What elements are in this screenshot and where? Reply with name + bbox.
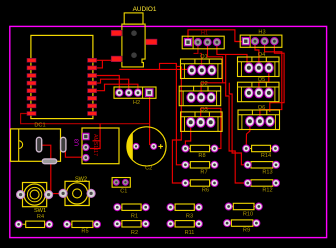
capacitor C1 xyxy=(112,178,130,195)
wire H1 pin4 to H3 pin4 xyxy=(188,30,242,42)
wire H3 pin3 right bus2 xyxy=(270,45,284,112)
svg-text:Q5: Q5 xyxy=(258,77,265,83)
resistor R12 xyxy=(244,180,279,194)
wire Q5 base to Q4 link xyxy=(259,74,269,89)
resistor R9 xyxy=(224,220,260,234)
transistor Q4 xyxy=(238,52,280,77)
resistor R8 xyxy=(182,145,218,159)
svg-text:R11: R11 xyxy=(185,230,195,236)
wire IC right pin5 to H2 pin3 xyxy=(96,84,138,91)
DC jack DC1 xyxy=(11,122,66,163)
wire IC right pin1 to AUDIO1 pad3 xyxy=(96,59,112,61)
resistor R7 xyxy=(182,161,218,175)
svg-text:Q1: Q1 xyxy=(200,54,207,60)
transistor Q3 xyxy=(181,107,223,131)
wire DC1 pad1 to SW1/SW2 xyxy=(41,145,65,193)
svg-text:H3: H3 xyxy=(258,30,265,36)
svg-text:R8: R8 xyxy=(198,153,205,159)
header H2 xyxy=(114,87,156,106)
capacitor C2 xyxy=(127,127,166,172)
svg-text:R2: R2 xyxy=(131,230,138,236)
wire H2 area to Q1 left pad xyxy=(119,68,192,70)
svg-text:Q4: Q4 xyxy=(258,52,265,58)
svg-text:R6: R6 xyxy=(202,188,209,194)
resistor R13 xyxy=(244,161,279,175)
wire H3 pin2 right bus to Q6 base xyxy=(260,45,282,116)
svg-text:AUDIO1: AUDIO1 xyxy=(133,6,157,13)
wire Q3 base up and right xyxy=(201,108,221,148)
svg-text:R9: R9 xyxy=(243,228,250,234)
wire Q3 emitter to R8 xyxy=(185,126,190,149)
resistor R5 xyxy=(64,221,101,235)
switch SW1 xyxy=(17,183,53,215)
wire DC1 pad2 to U3 pad3 xyxy=(63,152,84,158)
regulator U3 xyxy=(75,128,120,164)
wire H3 pin1 to Q4 base xyxy=(255,45,259,63)
resistor R3 xyxy=(167,204,202,220)
wire IC pin8-left to U3/C2/H2 long net xyxy=(21,114,150,124)
resistor R10 xyxy=(225,203,262,217)
svg-text:R5: R5 xyxy=(81,228,88,234)
transistor Q5 xyxy=(238,77,280,102)
svg-text:AMS1117: AMS1117 xyxy=(92,134,98,156)
wire IC right pin4 to H2 pin2 xyxy=(96,79,129,90)
wire IC right pin3 to H2 pin1 xyxy=(96,76,120,91)
wire H3 pin4 stub xyxy=(236,41,242,43)
svg-text:R12: R12 xyxy=(262,188,272,194)
svg-text:R4: R4 xyxy=(37,214,44,220)
resistor R14 xyxy=(243,145,279,159)
IC U2 with SMD pads xyxy=(27,35,97,118)
wire H2 pin4 to C2 positive xyxy=(150,96,153,146)
wire bus B to R6 xyxy=(172,66,185,183)
wire Q6 emitter to R14 xyxy=(246,126,250,149)
resistor R11 xyxy=(167,220,202,236)
svg-text:R7: R7 xyxy=(200,169,207,175)
svg-text:H1: H1 xyxy=(201,31,208,37)
wire jog at x159 xyxy=(160,63,182,69)
transistor Q1 xyxy=(181,54,223,79)
svg-text:R3: R3 xyxy=(186,213,193,219)
wire mid bus to Q4 xyxy=(226,54,249,64)
wire H1 pin3 down xyxy=(217,46,226,55)
wire H1 pin2 down xyxy=(208,46,223,83)
wire H1 pin1 to Q1 base xyxy=(194,46,198,54)
svg-text:Q3: Q3 xyxy=(200,107,207,113)
svg-text:R13: R13 xyxy=(262,169,272,175)
svg-text:R1: R1 xyxy=(131,213,138,219)
switch SW2 xyxy=(59,176,95,205)
wire mid bus to R12 xyxy=(226,54,248,183)
resistor R1 xyxy=(114,204,149,220)
header H3 xyxy=(240,30,282,48)
wire long net drop to U3 pads xyxy=(93,124,101,141)
wire bus A to R7 xyxy=(176,63,185,164)
audio jack AUDIO1 xyxy=(111,6,157,67)
svg-text:Q6: Q6 xyxy=(258,105,265,111)
resistor R4 xyxy=(15,214,53,228)
svg-text:DC1: DC1 xyxy=(34,122,45,128)
transistor Q6 xyxy=(238,105,280,130)
svg-text:U3: U3 xyxy=(75,139,81,146)
wire IC right pin2 jog xyxy=(96,60,103,68)
resistor R2 xyxy=(114,220,149,236)
svg-text:C2: C2 xyxy=(145,166,152,172)
wire Q2 base up xyxy=(201,83,223,93)
svg-text:SW2: SW2 xyxy=(75,176,87,182)
transistor Q2 xyxy=(179,81,221,106)
svg-text:Q2: Q2 xyxy=(200,81,207,87)
wire Q2 up join xyxy=(223,82,226,84)
wire U3 pad2 loop xyxy=(90,141,100,149)
svg-text:R14: R14 xyxy=(261,153,271,159)
svg-text:R10: R10 xyxy=(243,211,253,217)
resistor R6 xyxy=(182,180,218,194)
header H1 xyxy=(182,31,224,49)
svg-text:C1: C1 xyxy=(120,189,127,195)
wire mid bus2 to R13 xyxy=(229,83,247,165)
svg-text:H2: H2 xyxy=(133,100,140,106)
